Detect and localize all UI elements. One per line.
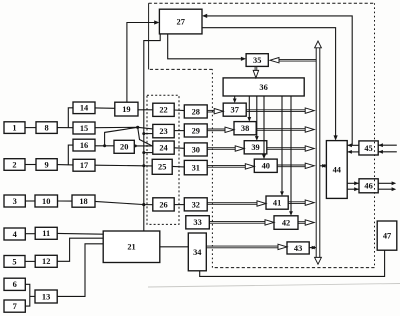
svg-text:22: 22 [159, 106, 167, 115]
svg-text:39: 39 [251, 143, 259, 152]
wire 14-19 [95, 107, 115, 109]
svg-text:27: 27 [177, 17, 185, 26]
svg-text:26: 26 [159, 200, 167, 209]
svg-text:24: 24 [159, 144, 168, 153]
svg-text:23: 23 [159, 127, 167, 136]
block 20 [114, 140, 134, 153]
block 12 [35, 255, 57, 267]
wire 36-38 [247, 96, 251, 122]
wire 22-28 [174, 109, 184, 112]
wire input to 45 upper [378, 143, 397, 147]
svg-text:5: 5 [12, 257, 16, 266]
wire node-24 diagonal [138, 127, 153, 146]
block 11 [35, 227, 57, 239]
svg-text:1: 1 [12, 124, 16, 133]
svg-text:15: 15 [80, 124, 88, 133]
bus arrow 29-38 [207, 127, 234, 132]
bus arrow 28-37 [207, 109, 223, 114]
wire 16 branch riser to node [103, 127, 138, 147]
svg-text:45: 45 [364, 144, 372, 153]
wire 16-20 [95, 145, 114, 147]
wire 20-24 [134, 145, 153, 148]
bus arrow 35-36 [253, 66, 258, 78]
wire 15-23 with node [95, 126, 153, 129]
wire 9-17 and branch to 16 [57, 145, 73, 165]
svg-text:32: 32 [192, 200, 200, 209]
block 1 [4, 122, 25, 134]
wire 34-47 bottom run [200, 250, 385, 276]
bus arrow 30-39 [207, 146, 244, 151]
wire 45-44 lower [347, 150, 359, 154]
wire 27-35 [168, 34, 246, 61]
wire 26-32 [174, 204, 184, 206]
link 43-bus [309, 246, 316, 250]
scan streak artifact [148, 284, 400, 288]
svg-text:38: 38 [241, 124, 249, 133]
link bus-44 [320, 164, 327, 168]
svg-text:18: 18 [79, 197, 87, 206]
wire 45-44 upper [347, 143, 359, 147]
block 25 [152, 159, 172, 174]
wire 23-29 [174, 130, 184, 132]
block 32 [184, 198, 207, 211]
svg-text:29: 29 [192, 126, 200, 135]
block 15 [73, 122, 95, 134]
svg-text:7: 7 [13, 302, 17, 311]
dashed sub-enclosure around blocks 22-26 [147, 95, 179, 224]
block 18 [72, 195, 95, 207]
block 35 [246, 54, 268, 67]
wire 19-22 [138, 109, 153, 111]
dashed enclosure: main unit boundary [149, 3, 375, 267]
block 6 [4, 278, 25, 290]
wire 36-37 [233, 96, 237, 103]
svg-text:2: 2 [12, 160, 16, 169]
svg-text:25: 25 [158, 163, 166, 172]
block 30 [184, 143, 207, 156]
bus arrow 42-bus [298, 220, 314, 225]
block 42 [274, 216, 298, 230]
svg-text:11: 11 [42, 229, 50, 238]
block 16 [73, 139, 95, 151]
block 5 [4, 256, 25, 268]
bus arrow 38-bus [256, 127, 314, 132]
svg-text:9: 9 [45, 160, 49, 169]
wire 19-27 [127, 20, 159, 102]
wire 13-21 [57, 244, 103, 297]
svg-text:34: 34 [193, 248, 202, 257]
svg-text:41: 41 [273, 199, 281, 208]
bus arrow 41-bus [288, 200, 314, 205]
block 9 [36, 159, 57, 171]
wire 3-10 [25, 200, 35, 202]
svg-text:42: 42 [282, 219, 290, 228]
wire 36-40 [262, 96, 266, 159]
bus arrow 34-43 [206, 244, 287, 249]
block 39 [244, 141, 267, 154]
block 41 [266, 196, 288, 209]
svg-text:13: 13 [42, 292, 50, 301]
wire 12-21 [57, 238, 103, 261]
wire 44-46 upper [347, 181, 359, 185]
svg-text:19: 19 [122, 105, 130, 114]
wire 2-9 [25, 164, 36, 166]
svg-text:40: 40 [262, 162, 270, 171]
wire 4-11 [25, 233, 35, 235]
block 28 [184, 105, 207, 118]
block 43 [287, 242, 309, 254]
wire 36-41 [280, 96, 284, 196]
block 14 [73, 102, 95, 114]
block 13 [35, 290, 57, 303]
svg-text:44: 44 [333, 165, 342, 174]
block 37 [223, 103, 246, 116]
wire 18-26 [95, 201, 153, 204]
svg-text:37: 37 [231, 106, 239, 115]
bus arrow 37-bus [246, 108, 314, 113]
block 36 [223, 78, 304, 96]
block 40 [254, 159, 277, 172]
svg-text:14: 14 [80, 104, 89, 113]
wire 46 output upper [378, 181, 396, 185]
svg-text:20: 20 [120, 143, 128, 152]
svg-text:10: 10 [42, 197, 50, 206]
block 21 [103, 231, 160, 263]
bus arrow 31-40 [207, 164, 254, 169]
rail taps to 23,24 and junction dots [142, 132, 153, 206]
bus arrow 39-bus [267, 146, 314, 151]
bus arrow 33-42 [209, 220, 274, 225]
wire 27 to 44 top [202, 28, 338, 141]
svg-text:35: 35 [253, 56, 261, 65]
block 44 [326, 141, 347, 199]
wire 10-18 [58, 200, 73, 202]
block 29 [184, 124, 207, 137]
wire feedback into 27 from 45 node [202, 14, 352, 146]
block 38 [234, 122, 256, 135]
block 2 [4, 159, 25, 171]
svg-text:21: 21 [127, 243, 135, 252]
block 17 [73, 159, 95, 171]
block 23 [153, 124, 174, 137]
svg-text:30: 30 [192, 145, 200, 154]
block 47 [377, 221, 397, 250]
svg-text:6: 6 [13, 280, 17, 289]
block 7 [4, 300, 25, 312]
wire 8-15 and branch to 14 [57, 108, 73, 128]
block 22 [153, 103, 174, 116]
wire 1-8 [25, 127, 36, 129]
wire input to 45 lower [378, 150, 397, 154]
svg-text:17: 17 [80, 161, 88, 170]
block 26 [153, 198, 174, 211]
block 46 [359, 179, 378, 193]
wire 17-25 [95, 164, 152, 167]
wire 11-21 [57, 232, 103, 235]
wire 44-46 lower [347, 187, 359, 191]
wire 5-12 [25, 260, 35, 262]
svg-text:3: 3 [13, 197, 17, 206]
bus arrow 32-41 [207, 201, 266, 206]
block 19 [115, 102, 138, 116]
wire 36-39 [255, 96, 259, 141]
block 27 [159, 9, 202, 34]
svg-text:36: 36 [259, 83, 267, 92]
svg-text:16: 16 [80, 141, 88, 150]
wire 24-30 [174, 147, 184, 150]
block 31 [184, 160, 207, 174]
svg-text:43: 43 [294, 244, 302, 253]
wire 36-42 [289, 96, 293, 216]
svg-text:31: 31 [192, 164, 200, 173]
wire 27 bottom to control rail [144, 34, 160, 231]
wire 21-34 [160, 246, 189, 248]
block 24 [153, 141, 174, 154]
bus arrow bus-35 [270, 58, 316, 63]
svg-text:28: 28 [192, 107, 200, 116]
block 3 [4, 195, 25, 207]
svg-text:47: 47 [383, 232, 391, 241]
svg-text:46: 46 [364, 182, 372, 191]
svg-text:33: 33 [193, 218, 201, 227]
block 10 [35, 195, 58, 207]
block 33 [186, 216, 210, 229]
block 8 [36, 122, 57, 134]
block 34 [188, 233, 206, 271]
main data bus [315, 41, 322, 264]
block 4 [4, 228, 25, 240]
wire 46 output lower [378, 187, 396, 191]
bus arrow 40-bus [277, 163, 314, 168]
wire 25-31 [172, 165, 184, 168]
block 45 [359, 141, 378, 155]
svg-text:12: 12 [42, 257, 50, 266]
svg-text:8: 8 [45, 124, 49, 133]
wire 6-13 join [25, 284, 35, 306]
